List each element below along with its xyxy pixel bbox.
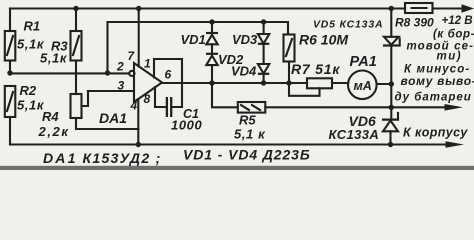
wire: pin3 input line xyxy=(88,90,134,92)
svg-text:ду батареи: ду батареи xyxy=(395,91,472,103)
svg-text:VD4: VD4 xyxy=(231,64,257,79)
wire: PA1 to zener column xyxy=(377,83,392,85)
resistor R7 rheostat xyxy=(289,78,348,96)
svg-text:R7 51к: R7 51к xyxy=(291,61,340,77)
svg-text:R5: R5 xyxy=(239,113,256,128)
scan edge band bottom xyxy=(0,166,474,170)
resistor R6 with lead xyxy=(284,35,295,84)
svg-text:РА1: РА1 xyxy=(350,54,377,70)
svg-text:3: 3 xyxy=(118,79,125,93)
capacitor C1 plates xyxy=(167,97,171,117)
svg-text:6: 6 xyxy=(165,68,172,82)
wire: pin4 to ground rail xyxy=(137,99,139,144)
svg-text:DA1: DA1 xyxy=(99,110,127,126)
resistor R1 with lead wires xyxy=(5,9,16,74)
arrow to chassis xyxy=(446,141,465,148)
resistor R2 with lead xyxy=(5,86,16,145)
wire: top rail right segment to arrow xyxy=(433,7,462,9)
node dot VD3 top xyxy=(261,19,266,24)
svg-text:VD5 КС133А: VD5 КС133А xyxy=(313,19,383,31)
svg-text:1: 1 xyxy=(144,57,151,71)
diode VD1 xyxy=(206,22,218,54)
node dot VD1 top xyxy=(209,19,214,24)
svg-text:2,2к: 2,2к xyxy=(38,124,70,139)
svg-text:4: 4 xyxy=(130,99,138,113)
svg-text:2: 2 xyxy=(116,60,124,74)
svg-text:5,1к: 5,1к xyxy=(40,51,68,66)
paper background xyxy=(0,0,474,170)
node dot feedback at pin2 line xyxy=(105,70,110,75)
diode VD4 xyxy=(258,64,269,83)
node dot pin7 top xyxy=(136,6,141,11)
svg-text:+12 В: +12 В xyxy=(442,15,473,27)
node dot R1-R2 junction xyxy=(7,70,12,75)
node dot R6 output xyxy=(286,80,291,85)
svg-text:5,1к: 5,1к xyxy=(17,98,45,113)
wire: pin2 input line xyxy=(10,72,129,74)
resistor R4 trimmer with tap and bottom lead xyxy=(71,91,139,129)
svg-text:(к бор-: (к бор- xyxy=(433,29,474,41)
resistor R5 with left lead xyxy=(212,83,265,113)
svg-text:ти): ти) xyxy=(437,51,463,63)
svg-text:К корпусу: К корпусу xyxy=(403,125,468,139)
milliammeter PA1 xyxy=(348,71,377,100)
node dot battery line at zener column xyxy=(389,105,394,110)
svg-text:R4: R4 xyxy=(42,109,59,124)
zener VD5 xyxy=(383,9,400,85)
wire: feedback line from pin2 node to diodes and R6 xyxy=(108,22,289,73)
wire: top +12V rail xyxy=(10,7,405,9)
svg-text:R6 10М: R6 10М xyxy=(299,32,348,48)
svg-text:К153УД2 ;: К153УД2 ; xyxy=(83,150,162,166)
svg-text:R8 390: R8 390 xyxy=(395,15,434,29)
resistor R8 xyxy=(405,3,433,13)
zener VD6 xyxy=(382,113,399,145)
diode VD2 xyxy=(206,54,218,83)
wire: bottom ground rail xyxy=(10,143,448,145)
node dot pin4 ground xyxy=(136,142,141,147)
svg-text:R1: R1 xyxy=(24,19,41,34)
svg-text:VD1: VD1 xyxy=(181,32,206,47)
resistor R3 with leads xyxy=(71,9,82,95)
arrow battery minus xyxy=(445,104,464,111)
svg-text:VD1 - VD4 Д223Б: VD1 - VD4 Д223Б xyxy=(183,147,311,163)
op-amp DA1 triangle xyxy=(129,63,162,102)
svg-text:1000: 1000 xyxy=(171,118,202,133)
svg-text:VD3: VD3 xyxy=(232,32,258,47)
node dot PA1 right xyxy=(389,81,394,86)
svg-text:R2: R2 xyxy=(20,83,37,98)
node dot R3 top xyxy=(73,6,78,11)
diode VD3 xyxy=(258,22,269,64)
svg-text:5,1к: 5,1к xyxy=(17,37,45,52)
node dot VD2 output xyxy=(209,80,214,85)
svg-text:КС133А: КС133А xyxy=(329,127,380,142)
svg-text:5,1 к: 5,1 к xyxy=(234,127,266,142)
wire: op-amp output line xyxy=(162,82,307,84)
node dot VD4 output xyxy=(261,80,266,85)
svg-text:DA1: DA1 xyxy=(43,150,78,166)
wire: C1 correction loop pins 1 and 8 xyxy=(154,59,182,107)
svg-text:мА: мА xyxy=(354,79,372,93)
svg-text:вому выво-: вому выво- xyxy=(401,74,474,88)
node dot VD6 ground xyxy=(388,142,393,147)
arrow to +12V xyxy=(462,4,474,13)
wire: to battery minus with arrow xyxy=(265,106,447,108)
svg-text:8: 8 xyxy=(144,92,151,106)
wire: pin7 supply from top rail xyxy=(138,9,140,67)
wire: zener column middle xyxy=(390,84,392,119)
node dot VD5 top rail xyxy=(389,6,394,11)
